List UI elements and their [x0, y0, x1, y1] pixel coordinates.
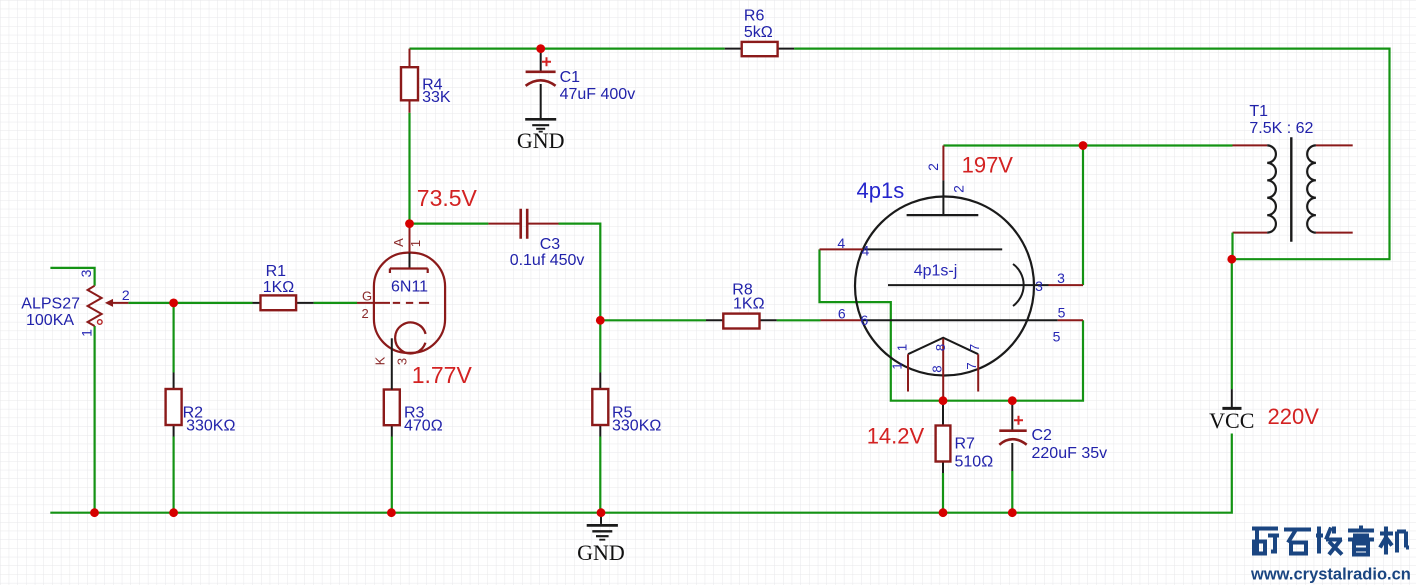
cathode arc	[395, 322, 425, 353]
beam plate arc	[1013, 264, 1024, 306]
svg-text:4: 4	[862, 243, 870, 259]
watermark char shi	[1284, 530, 1311, 554]
svg-text:1: 1	[889, 362, 904, 369]
resistor R7	[936, 401, 994, 473]
resistor R1	[253, 263, 314, 310]
svg-text:0.1uf 450v: 0.1uf 450v	[510, 252, 585, 269]
svg-text:14.2V: 14.2V	[867, 423, 925, 448]
cathode lead	[391, 338, 393, 389]
junction cathode bus C2	[1008, 396, 1017, 405]
svg-text:1KΩ: 1KΩ	[263, 279, 295, 296]
wire bottom rail	[50, 434, 1232, 513]
svg-text:3: 3	[1035, 278, 1043, 294]
wire pot input	[50, 268, 94, 513]
svg-text:6N11: 6N11	[391, 279, 428, 296]
svg-text:3: 3	[1057, 270, 1065, 286]
svg-text:47uF 400v: 47uF 400v	[560, 86, 636, 103]
svg-text:2: 2	[362, 306, 369, 321]
svg-text:GND: GND	[577, 540, 625, 565]
wire pin4 L-path and cathode bus	[820, 249, 1084, 400]
junction node wiper R1 R2	[169, 299, 178, 308]
resistor R2	[166, 373, 236, 437]
resistor R6	[725, 7, 794, 56]
svg-text:4: 4	[837, 235, 845, 251]
grid pin 3 row	[888, 284, 1049, 286]
wire top rail	[410, 49, 1390, 260]
svg-text:1KΩ: 1KΩ	[733, 296, 765, 313]
heater	[908, 338, 978, 355]
svg-text:3: 3	[78, 269, 94, 277]
svg-text:VCC: VCC	[1209, 408, 1254, 433]
capacitor C3	[488, 209, 584, 269]
svg-text:1: 1	[408, 240, 423, 247]
svg-text:K: K	[372, 356, 387, 365]
capacitor C2	[999, 401, 1107, 471]
wire R5 column lower	[599, 320, 601, 512]
resistor R3	[384, 390, 443, 437]
wire R7 C2 lower	[943, 471, 1012, 513]
grid lead dashed	[357, 302, 390, 304]
junction cathode bus R7	[939, 396, 948, 405]
cathode row pins 6 5	[821, 319, 862, 321]
svg-text:R7: R7	[955, 435, 976, 452]
svg-text:C1: C1	[560, 69, 581, 86]
wire wiper to node2	[128, 302, 173, 304]
svg-text:A: A	[391, 238, 406, 247]
resistor R8	[706, 281, 777, 328]
svg-text:1: 1	[79, 329, 95, 337]
anode plate	[390, 269, 428, 274]
svg-text:5: 5	[1058, 305, 1066, 321]
svg-text:2: 2	[925, 163, 941, 171]
watermark char yin	[1348, 526, 1374, 555]
VCC power symbol	[1209, 389, 1254, 433]
svg-text:3: 3	[394, 358, 409, 365]
tube 6N11	[357, 224, 445, 390]
svg-text:www.crystalradio.cn: www.crystalradio.cn	[1250, 566, 1411, 584]
screen grid pin 4	[820, 248, 864, 250]
potentiometer ALPS27	[21, 269, 130, 337]
junction T1 primary VCC	[1227, 255, 1236, 264]
svg-text:R1: R1	[266, 263, 287, 280]
svg-text:220uF 35v: 220uF 35v	[1032, 445, 1108, 462]
svg-text:7: 7	[964, 362, 979, 369]
junction rail GND	[597, 508, 606, 517]
svg-text:2: 2	[122, 287, 130, 303]
svg-text:73.5V: 73.5V	[417, 185, 478, 211]
svg-text:510Ω: 510Ω	[955, 454, 994, 471]
wire pin3 vertical	[1082, 146, 1084, 286]
svg-text:8: 8	[929, 365, 944, 372]
svg-text:GND: GND	[517, 128, 565, 153]
junction node C3 R5 R8	[596, 316, 605, 325]
svg-text:R6: R6	[744, 7, 765, 24]
svg-text:100KA: 100KA	[26, 312, 74, 329]
watermark char ji	[1380, 527, 1409, 555]
wire R2 column	[173, 303, 175, 513]
tube 4p1s	[820, 146, 1084, 401]
transformer T1	[1233, 103, 1353, 259]
svg-text:470Ω: 470Ω	[404, 418, 443, 435]
svg-text:6: 6	[861, 312, 869, 328]
svg-text:7: 7	[967, 344, 982, 351]
svg-text:197V: 197V	[962, 153, 1014, 178]
wire R4 column	[408, 113, 410, 224]
ground bottom center	[587, 513, 618, 540]
wire anode row 197V	[943, 144, 1232, 146]
svg-text:330KΩ: 330KΩ	[186, 418, 235, 435]
anode lead	[409, 224, 411, 253]
svg-text:G: G	[362, 289, 372, 304]
wire node73 to C3 to R5 column	[410, 224, 601, 321]
capacitor C1	[526, 49, 636, 119]
svg-text:220V: 220V	[1268, 404, 1320, 429]
svg-text:4p1s: 4p1s	[857, 178, 905, 203]
watermark	[1252, 526, 1409, 555]
anode lead pin 2	[942, 146, 944, 181]
junction rail R2	[169, 508, 178, 517]
ground under C1	[525, 119, 556, 131]
svg-text:5kΩ: 5kΩ	[744, 24, 773, 41]
svg-text:C3: C3	[540, 236, 561, 253]
svg-text:7.5K : 62: 7.5K : 62	[1249, 120, 1313, 137]
junction node 73.5V	[405, 219, 414, 228]
svg-text:33K: 33K	[422, 89, 451, 106]
junction C1 top rail	[536, 44, 545, 53]
svg-text:8: 8	[933, 344, 948, 351]
svg-text:6: 6	[838, 305, 846, 321]
svg-text:4p1s-j: 4p1s-j	[914, 263, 958, 280]
resistor R5	[592, 373, 661, 437]
wire VCC upper	[1231, 259, 1233, 389]
svg-text:5: 5	[1053, 329, 1061, 345]
junction rail R3	[387, 508, 396, 517]
svg-text:C2: C2	[1032, 427, 1053, 444]
watermark char shou	[1316, 527, 1342, 555]
svg-text:2: 2	[951, 185, 967, 193]
resistor R4	[401, 49, 451, 113]
watermark char kuang	[1252, 529, 1279, 555]
svg-text:T1: T1	[1249, 103, 1268, 120]
wire R1 row	[174, 302, 357, 304]
wire R3 column lower	[391, 437, 393, 513]
svg-text:ALPS27: ALPS27	[21, 295, 80, 312]
junction rail pot	[90, 508, 99, 517]
svg-text:1: 1	[894, 344, 909, 351]
wire R8 row	[600, 319, 820, 321]
junction rail C2	[1008, 508, 1017, 517]
junction rail R7	[939, 508, 948, 517]
svg-text:330KΩ: 330KΩ	[612, 418, 661, 435]
svg-text:1.77V: 1.77V	[412, 362, 473, 388]
junction node 197V	[1079, 141, 1088, 150]
